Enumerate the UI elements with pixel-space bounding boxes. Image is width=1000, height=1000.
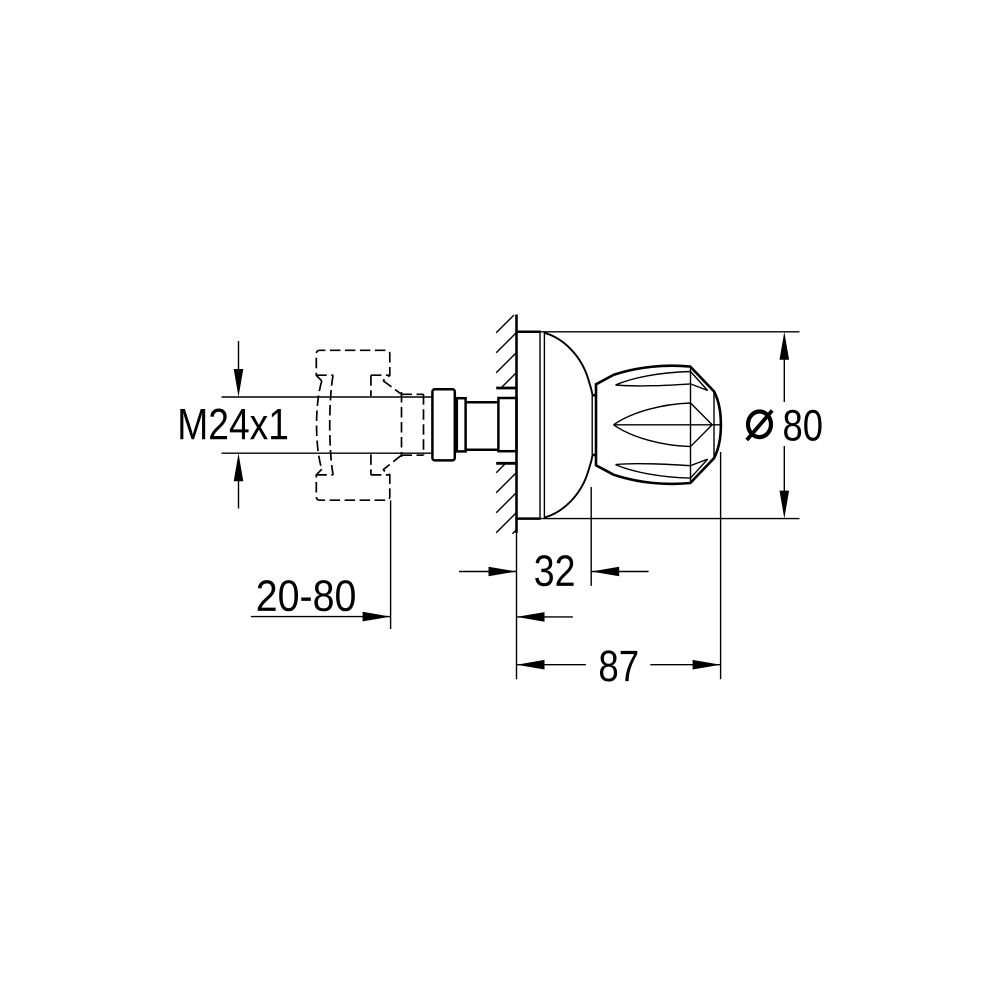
valve body right upper slant [383,381,402,395]
escutcheon bell top curve [544,333,592,394]
extension line top (dia 80) [541,331,800,333]
svg-text:20-80: 20-80 [256,572,357,621]
escutcheon front ring lines [539,332,541,519]
wall hole bottom edge [496,462,517,465]
thread cylinder M24 top line [222,396,433,398]
extension line wall [516,519,518,679]
escutcheon bell bottom curve [544,456,592,517]
valve body flange bottom edges [316,374,390,376]
dimension arrow up (M24 bottom) [234,453,244,508]
spindle big ring [432,389,454,460]
svg-text:87: 87 [598,642,639,691]
dim 20-80 arrow right [517,612,573,622]
dia 80 arrow down [780,491,790,519]
wall line [515,315,518,534]
dim 87 line right [650,660,720,670]
dia 80 arrow up [780,332,790,360]
spindle wall nut [498,398,516,451]
extension line knob end [720,452,722,679]
svg-text:80: 80 [782,402,823,451]
label dia 80 symbol [748,412,771,438]
dim 20-80 line left [251,612,391,622]
spindle shaft bottom [466,449,499,452]
escutcheon top edge [517,331,541,334]
svg-text:32: 32 [534,547,576,596]
knob centerline [614,424,721,426]
knob silhouette [596,366,721,484]
valve body right lower slant [383,455,402,470]
valve body bottom flange top edges [316,474,390,476]
dimension arrow down (M24 top) [234,341,244,397]
spindle shaft top [466,401,499,404]
spindle small ring [457,398,466,451]
escutcheon bottom edge [517,517,541,520]
extension line knob start [590,487,592,586]
knob stem bottom edge [592,454,597,457]
valve body left outer profile [317,381,322,469]
extension line valve body [390,500,392,629]
valve body right inner vertical top [370,375,372,396]
valve body left inner profile [330,375,333,475]
knob stem top edge [592,394,597,397]
svg-text:M24x1: M24x1 [177,400,289,449]
escutcheon front rim [591,394,593,456]
dim 32 left arrow [459,567,517,577]
thread cylinder M24 bottom line [222,452,433,454]
valve body right inner vertical bottom [370,454,372,475]
valve body bottom flange (dashed) [316,469,390,500]
valve body top flange (dashed) [316,350,390,381]
knob facet ring vertical [690,367,692,483]
wall hatching [496,315,517,534]
knob front face vertical [713,391,715,458]
dia 80 dimension line lower [783,446,785,492]
wall hole top edge [496,387,517,390]
knob lower lens [616,459,708,478]
valve body neck (dashed) [402,392,424,457]
dim 87 line left [517,660,586,670]
dia 80 dimension line upper [783,358,785,402]
extension line bottom (dia 80) [541,518,800,520]
knob central lens lower [614,425,713,447]
dim 32 right arrow [591,567,648,577]
knob upper lens [616,372,708,391]
knob central lens upper [614,403,713,425]
